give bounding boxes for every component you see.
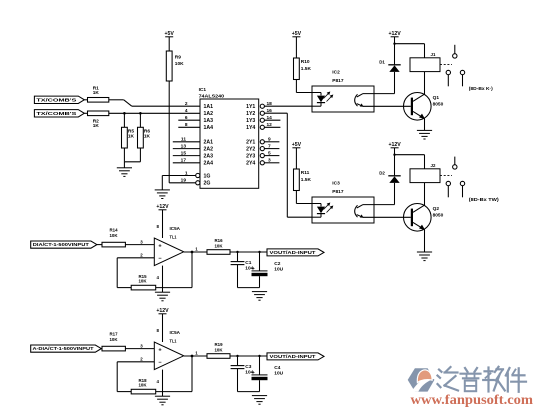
svg-text:2A3: 2A3 xyxy=(204,154,214,160)
svg-text:2Y2: 2Y2 xyxy=(246,147,255,153)
svg-text:1: 1 xyxy=(185,170,188,176)
svg-text:J1: J1 xyxy=(431,52,436,57)
svg-text:A-DIA/CT-1-500VINPUT: A-DIA/CT-1-500VINPUT xyxy=(33,346,94,351)
svg-text:(8D-Bx TW): (8D-Bx TW) xyxy=(469,197,500,202)
svg-text:+: + xyxy=(252,266,255,271)
svg-text:10K: 10K xyxy=(109,233,118,238)
svg-text:2A2: 2A2 xyxy=(204,147,214,153)
svg-text:R11: R11 xyxy=(301,170,310,176)
svg-text:19: 19 xyxy=(181,178,187,184)
svg-text:1Y2: 1Y2 xyxy=(246,111,255,117)
svg-text:D2: D2 xyxy=(379,171,385,176)
svg-text:10K: 10K xyxy=(138,383,147,388)
svg-text:R14: R14 xyxy=(109,227,118,232)
svg-text:VOUT/AD-INPUT: VOUT/AD-INPUT xyxy=(270,354,316,359)
svg-text:Q1: Q1 xyxy=(433,95,440,101)
svg-text:1G: 1G xyxy=(204,173,211,179)
svg-text:R9: R9 xyxy=(175,55,181,61)
svg-text:C1: C1 xyxy=(245,260,251,266)
svg-text:1K: 1K xyxy=(144,134,151,140)
svg-text:IC3: IC3 xyxy=(332,180,340,186)
svg-text:10K: 10K xyxy=(214,347,223,352)
svg-text:1A2: 1A2 xyxy=(204,111,214,117)
svg-text:VOUT/AD-INPUT: VOUT/AD-INPUT xyxy=(270,250,316,255)
svg-text:2Y4: 2Y4 xyxy=(246,161,255,167)
svg-text:TX/COMB'S: TX/COMB'S xyxy=(36,97,76,102)
svg-text:D1: D1 xyxy=(379,60,385,65)
svg-text:8050: 8050 xyxy=(433,102,444,108)
svg-text:2G: 2G xyxy=(204,181,211,187)
svg-text:C4: C4 xyxy=(274,365,280,371)
svg-text:2A4: 2A4 xyxy=(204,161,214,167)
svg-text:IC2: IC2 xyxy=(332,69,340,75)
svg-text:10K: 10K xyxy=(109,337,118,342)
svg-text:P817: P817 xyxy=(332,189,344,195)
svg-text:1.5K: 1.5K xyxy=(301,66,312,72)
svg-text:2Y3: 2Y3 xyxy=(246,154,255,160)
svg-text:J2: J2 xyxy=(431,163,436,168)
svg-text:1K: 1K xyxy=(128,134,135,140)
svg-text:2: 2 xyxy=(185,101,188,107)
svg-text:10K: 10K xyxy=(214,243,223,248)
svg-text:+: + xyxy=(252,370,255,375)
svg-text:R17: R17 xyxy=(109,331,118,336)
svg-text:1A4: 1A4 xyxy=(204,125,214,131)
svg-text:DIA/CT-1-500VINPUT: DIA/CT-1-500VINPUT xyxy=(33,242,89,247)
svg-text:www.fanpusoft.com: www.fanpusoft.com xyxy=(411,392,534,407)
svg-text:10K: 10K xyxy=(138,279,147,284)
svg-text:1Y3: 1Y3 xyxy=(246,118,255,124)
svg-text:10U: 10U xyxy=(274,370,283,376)
svg-text:1K: 1K xyxy=(93,90,100,96)
svg-text:74ALS240: 74ALS240 xyxy=(199,93,225,98)
svg-text:TX/COMB'S: TX/COMB'S xyxy=(36,111,76,116)
svg-text:Q2: Q2 xyxy=(433,206,440,212)
svg-text:2A1: 2A1 xyxy=(204,140,214,146)
svg-text:2Y1: 2Y1 xyxy=(246,140,255,146)
svg-text:1Y1: 1Y1 xyxy=(246,104,255,110)
svg-text:10U: 10U xyxy=(274,266,283,272)
svg-text:1A3: 1A3 xyxy=(204,118,214,124)
svg-text:C3: C3 xyxy=(245,364,251,370)
svg-text:1A1: 1A1 xyxy=(204,104,214,110)
svg-text:8050: 8050 xyxy=(433,213,444,219)
svg-text:1Y4: 1Y4 xyxy=(246,125,255,131)
svg-text:4: 4 xyxy=(185,108,188,114)
svg-text:IC5A: IC5A xyxy=(170,226,181,232)
svg-text:1K: 1K xyxy=(93,123,100,129)
svg-text:10K: 10K xyxy=(175,61,184,67)
svg-text:R10: R10 xyxy=(301,59,310,65)
svg-text:IC5A: IC5A xyxy=(170,330,181,336)
svg-text:IC1: IC1 xyxy=(199,87,207,93)
svg-text:1.5K: 1.5K xyxy=(301,177,312,183)
svg-text:(8D-Bx K·): (8D-Bx K·) xyxy=(469,86,493,91)
svg-text:C2: C2 xyxy=(274,261,280,267)
svg-text:P817: P817 xyxy=(332,78,344,84)
svg-text:TL1: TL1 xyxy=(170,234,177,239)
svg-text:TL1: TL1 xyxy=(170,338,177,343)
